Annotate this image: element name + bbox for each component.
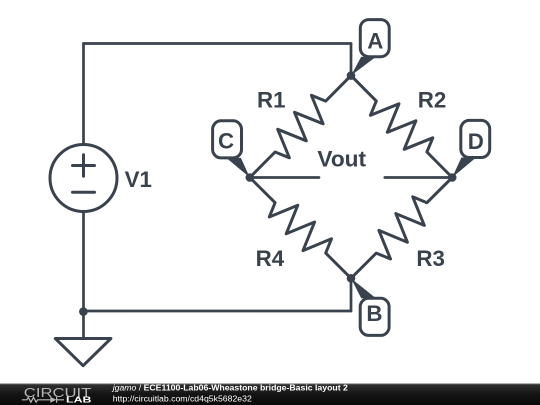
wire down to node A bbox=[350, 44, 353, 76]
logo schematic glyph bbox=[22, 397, 64, 403]
resistor R3 bbox=[351, 178, 452, 279]
ground junction dot bbox=[79, 307, 88, 316]
wire top-left vertical to V1 bbox=[82, 44, 85, 145]
svg-text:C: C bbox=[218, 129, 234, 154]
svg-text:LAB: LAB bbox=[66, 395, 92, 405]
node B flag box bbox=[360, 298, 389, 335]
node B flag pointer bbox=[351, 278, 376, 298]
svg-text:jgamo / ECE1100-Lab06-Wheaston: jgamo / ECE1100-Lab06-Wheastone bridge-B… bbox=[112, 383, 348, 393]
node C junction dot bbox=[246, 173, 255, 182]
svg-text:A: A bbox=[367, 28, 383, 53]
wire Vout right segment bbox=[385, 176, 452, 179]
svg-text:D: D bbox=[468, 129, 484, 154]
node A junction dot bbox=[347, 71, 356, 80]
svg-text:http://circuitlab.com/cd4q5k56: http://circuitlab.com/cd4q5k5682e32 bbox=[113, 393, 252, 403]
svg-text:V1: V1 bbox=[125, 167, 152, 192]
node B junction dot bbox=[347, 274, 356, 283]
logo diode triangle bbox=[50, 397, 56, 403]
svg-text:R2: R2 bbox=[418, 88, 447, 113]
node A flag pointer bbox=[351, 57, 376, 76]
resistor R4 bbox=[250, 178, 351, 279]
wire bottom horizontal bbox=[84, 310, 352, 313]
node D flag pointer bbox=[452, 158, 476, 178]
svg-text:Vout: Vout bbox=[317, 146, 366, 171]
ground bbox=[55, 339, 111, 366]
node D junction dot bbox=[448, 173, 457, 182]
resistor R2 bbox=[351, 76, 452, 178]
resistor R1 bbox=[250, 76, 351, 178]
wire V1 bottom to ground junction bbox=[82, 212, 85, 339]
svg-text:R1: R1 bbox=[257, 88, 286, 113]
node C flag pointer bbox=[227, 158, 250, 178]
voltage source V1 bbox=[50, 145, 117, 212]
node C flag box bbox=[213, 121, 242, 158]
node A flag box bbox=[360, 20, 389, 57]
svg-text:B: B bbox=[366, 301, 382, 326]
node D flag box bbox=[461, 120, 490, 157]
wire up to node B bbox=[350, 278, 353, 311]
wire Vout left segment bbox=[250, 176, 319, 179]
svg-text:R3: R3 bbox=[416, 246, 445, 271]
svg-text:R4: R4 bbox=[256, 246, 285, 271]
wire top horizontal bbox=[84, 42, 352, 45]
